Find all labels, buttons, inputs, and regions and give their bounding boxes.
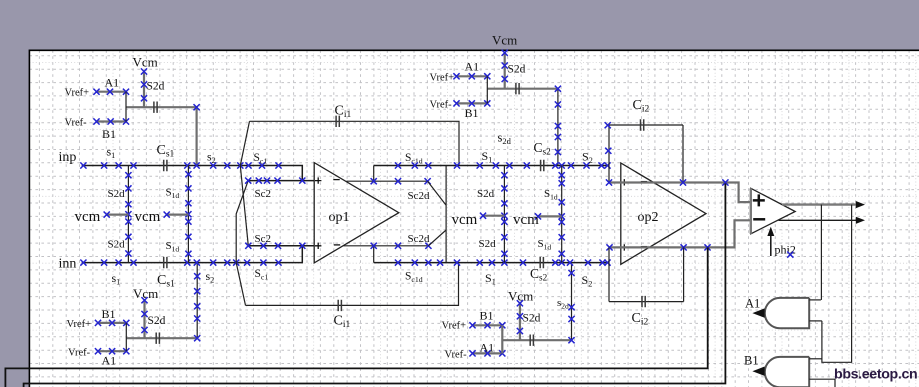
- pin of vcm tap mid-1: [480, 213, 486, 219]
- wire switch S1d vertical mid: [561, 166, 563, 263]
- pins on Vref- row top-mid: [453, 100, 459, 106]
- pin of vcm tap left-2: [164, 212, 170, 218]
- pins on Vref+ row bottom-mid: [469, 322, 475, 328]
- capacitor Ci2 top: [641, 119, 644, 130]
- pin of phi2: [787, 252, 793, 258]
- svg-text:A1: A1: [480, 341, 495, 355]
- capacitor ref capacitor top-left: [154, 102, 157, 113]
- junctions on top mid row: [395, 162, 401, 168]
- junctions on inn row: [80, 260, 86, 266]
- pins on Vref+ row bottom-left: [95, 320, 101, 326]
- pins on row Sc2 bottom: [245, 243, 251, 249]
- wire Vref+ row bottom-mid: [473, 324, 503, 326]
- wire riser from ref cap to inp row: [196, 107, 198, 165]
- svg-text:Vref+: Vref+: [65, 88, 90, 99]
- wire Vref+ row top-mid: [456, 75, 487, 77]
- and-gate A1: [765, 298, 809, 328]
- wire Vref+ row top-left: [96, 91, 126, 93]
- junctions on op2 bottom row: [606, 244, 612, 250]
- pins on Vref+ row top-mid: [453, 73, 459, 79]
- wire op2 +in / +out row: [609, 183, 751, 203]
- svg-text:phi2: phi2: [775, 243, 796, 257]
- svg-text:vcm: vcm: [75, 209, 101, 225]
- comparator U1: [751, 188, 795, 234]
- pins of switch S2d top-left: [141, 68, 147, 74]
- wire switch S2d vertical (bottom-left ref block): [143, 300, 145, 338]
- pins of S2d switches mid: [501, 172, 507, 178]
- pins of S2d switches left: [125, 172, 131, 178]
- wire vcm tap wire mid-1: [483, 215, 505, 217]
- svg-text:Vref-: Vref-: [68, 348, 91, 359]
- svg-text:S2d: S2d: [479, 238, 497, 250]
- and-gate B1: [765, 357, 809, 387]
- wire switch S2d vertical mid: [503, 166, 505, 263]
- wire vcm vertical at op1 output: [445, 166, 447, 263]
- svg-text:inp: inp: [59, 150, 77, 165]
- clock arrow phi2: [770, 234, 772, 257]
- svg-text:Sc2: Sc2: [255, 233, 272, 245]
- capacitor Cs1 top: [164, 160, 167, 171]
- pin of vcm tap left-1: [104, 212, 110, 218]
- wire op1-out bottom row to op2: [374, 262, 440, 264]
- svg-text:S2d: S2d: [148, 315, 166, 327]
- svg-text:bbs.eetop.cn: bbs.eetop.cn: [834, 367, 917, 383]
- wire ref cap wire bottom-mid: [502, 339, 571, 341]
- svg-text:vcm: vcm: [513, 212, 539, 228]
- wire vertical comp top output to gate A1: [820, 205, 822, 300]
- wire Vref- row top-left: [96, 120, 126, 122]
- wire diagonal Sc2d bottom to vcm vertical: [428, 230, 446, 246]
- wire Ci2 bottom left vertical: [608, 247, 610, 301]
- wire Vref- row top-mid: [456, 102, 487, 104]
- capacitor Cs2 top: [541, 160, 544, 171]
- svg-text:Sc2d: Sc2d: [408, 233, 431, 245]
- pins on Sc2d row top: [371, 178, 377, 184]
- wire riser op1 +out to Sc1d row: [373, 166, 375, 182]
- wire switch S2d vertical (bottom-mid ref block): [519, 303, 521, 340]
- svg-text:S2d: S2d: [477, 188, 495, 200]
- wire op2 -out routing to bottom-left: [5, 247, 707, 387]
- svg-text:Sc2d: Sc2d: [408, 190, 431, 202]
- wire op1 -out stub / Sc2d row bottom: [343, 245, 428, 247]
- svg-text:A1: A1: [745, 297, 760, 311]
- wire switch S2d vertical left: [127, 166, 129, 263]
- pins on Ci2 left vertical: [605, 122, 611, 128]
- wire diagonal Sc2d top to vcm vertical: [428, 181, 447, 205]
- svg-text:B1: B1: [465, 106, 479, 120]
- svg-text:Vcm: Vcm: [492, 33, 517, 48]
- wire Vref- row bottom-left: [98, 350, 127, 352]
- wire switch S2d vertical (top-left ref block): [143, 72, 145, 108]
- pins on Vref+ row top-left: [93, 89, 99, 95]
- capacitor ref capacitor bottom-mid: [530, 335, 533, 346]
- svg-text:B1: B1: [102, 307, 116, 321]
- svg-text:Vref+: Vref+: [430, 73, 455, 84]
- pins on row Sc2 top: [245, 178, 251, 184]
- wire cross-couple diagonal row Sc2-top to node-B: [236, 181, 248, 263]
- svg-text:S2d: S2d: [147, 81, 165, 93]
- wire vcm tap wire mid-2: [538, 215, 562, 217]
- wire op1-out top row to op2 (Sc1d / s1 / Cs2 / s2): [374, 165, 447, 167]
- svg-text:A1: A1: [465, 60, 480, 74]
- capacitor ref capacitor bottom-left: [156, 333, 159, 344]
- svg-text:Sc2: Sc2: [255, 188, 272, 200]
- wire vertical comp output down to gates: [822, 205, 852, 363]
- wire switch S1d vertical left: [187, 166, 189, 263]
- wire Vref- row bottom-mid: [473, 352, 503, 354]
- wire vertical joining Vref rows bottom-mid: [501, 325, 503, 353]
- wire gate B1 input stub top: [809, 358, 822, 360]
- wire gate A1 input stub top: [809, 299, 821, 301]
- wire vertical joining Vref rows top-mid: [486, 76, 488, 103]
- output arrow A1: [752, 308, 764, 317]
- pins of switch S2d top-mid: [502, 50, 508, 56]
- wire diagonal node-A to top rail: [240, 121, 249, 165]
- pins on riser top-mid: [555, 86, 561, 92]
- wire vertical joining Vref rows top-left: [125, 92, 127, 122]
- svg-text:S2d: S2d: [108, 188, 126, 200]
- wire vertical joining Vref rows bottom-left: [125, 323, 127, 351]
- wire feedback rail top (Ci1): [250, 121, 460, 165]
- svg-text:S2d: S2d: [523, 313, 541, 325]
- pins on riser top-left: [194, 104, 200, 110]
- svg-text:Vcm: Vcm: [133, 55, 158, 70]
- capacitor Ci2 bottom: [642, 296, 645, 307]
- wire riser op1 -out to Sc1d bottom row: [373, 246, 375, 263]
- wire feedback rail bottom (Ci2): [609, 301, 684, 303]
- svg-text:Vref-: Vref-: [445, 350, 468, 361]
- capacitor Ci1 top: [336, 116, 339, 127]
- svg-text:A1: A1: [105, 76, 120, 90]
- wire row Sc2 top (op1 +in): [248, 180, 314, 182]
- svg-text:Vcm: Vcm: [508, 289, 533, 304]
- wire feedback rail bottom (Ci1): [246, 263, 459, 306]
- capacitor Ci1 bottom: [338, 300, 341, 311]
- svg-text:B1: B1: [744, 354, 759, 368]
- svg-text:A1: A1: [102, 354, 117, 368]
- wire vcm tap wire left-1: [107, 214, 129, 216]
- svg-text:op1: op1: [329, 210, 350, 225]
- op-amp op1: [314, 163, 399, 263]
- capacitor Cs1 bottom: [164, 257, 167, 268]
- pins of S1d switches mid: [559, 172, 565, 178]
- pins on Vref- row bottom-mid: [469, 350, 475, 356]
- svg-text:op2: op2: [638, 210, 659, 225]
- wire ref cap wire bottom-left: [126, 337, 197, 339]
- svg-text:S2d: S2d: [108, 239, 126, 251]
- wire riser from inn row to ref cap: [196, 263, 198, 339]
- wire comparator output bottom: [779, 219, 857, 221]
- svg-text:inn: inn: [59, 257, 77, 272]
- wire ref cap wire top-mid: [487, 88, 558, 90]
- pins of switch S2d bottom-left: [141, 297, 147, 303]
- capacitor Cs2 bottom: [540, 257, 543, 268]
- wire riser from ref cap to op1-out row: [557, 89, 559, 166]
- wire op2 +out routing to bottom-left: [24, 184, 726, 387]
- svg-text:B1: B1: [480, 309, 494, 323]
- wire comparator output top: [782, 203, 856, 205]
- wire op1 +out stub / Sc2d row top: [346, 180, 427, 182]
- op-amp op2: [621, 163, 706, 264]
- svg-text:Vref+: Vref+: [67, 319, 92, 330]
- wire gate B1 input stub bottom: [809, 379, 835, 387]
- svg-text:vcm: vcm: [452, 212, 478, 228]
- pins on Vref- row bottom-left: [95, 348, 101, 354]
- svg-text:vcm: vcm: [135, 209, 161, 225]
- svg-text:S2d: S2d: [508, 64, 526, 76]
- wire inn row (node s1 to op1): [82, 246, 303, 263]
- wire Ci2 left vertical to op2 +in: [608, 125, 610, 183]
- svg-text:Vref+: Vref+: [442, 321, 467, 332]
- wire feedback rail top (Ci2): [608, 124, 683, 126]
- svg-text:Vref-: Vref-: [430, 100, 453, 111]
- wire inp row (node s1 to op1): [82, 166, 303, 181]
- wire switch S2d vertical (top-mid ref block): [504, 53, 506, 89]
- wire Ci2 top right drop to op2 +out: [682, 125, 684, 183]
- wire riser from op1-out bottom row to ref cap: [571, 263, 573, 341]
- svg-text:B1: B1: [102, 127, 116, 141]
- pins on Sc2d row bottom: [371, 243, 377, 249]
- wire ref cap wire top-left: [126, 106, 197, 108]
- pins of switch S2d bottom-mid: [517, 300, 523, 306]
- junctions on inp row: [80, 162, 86, 168]
- wire Ci2 bottom right vertical: [683, 247, 685, 301]
- wire op2 -in / -out row: [609, 220, 751, 247]
- pins on Vref- row top-left: [93, 118, 99, 124]
- output arrow B1: [752, 367, 764, 376]
- pins of S1d switches left: [185, 171, 191, 177]
- junctions on op2 top row: [606, 179, 612, 185]
- wire gate A1 input stub bottom: [809, 320, 822, 322]
- svg-text:Vref-: Vref-: [65, 118, 88, 129]
- junctions on bottom mid row: [395, 260, 401, 266]
- pin of vcm tap mid-2: [535, 213, 541, 219]
- pins on riser bottom-left: [194, 273, 200, 279]
- pins on riser bottom-mid: [568, 270, 574, 276]
- wire vcm tap wire left-2: [167, 214, 189, 216]
- wire row Sc2 bottom (op1 -in): [248, 245, 314, 247]
- wire Vref+ row bottom-left: [98, 322, 127, 324]
- capacitor ref capacitor top-mid: [516, 83, 519, 94]
- wire cross-couple diagonal node-A to row Sc2-bottom: [240, 166, 248, 246]
- wire diagonal node-B to bottom rail: [236, 263, 245, 306]
